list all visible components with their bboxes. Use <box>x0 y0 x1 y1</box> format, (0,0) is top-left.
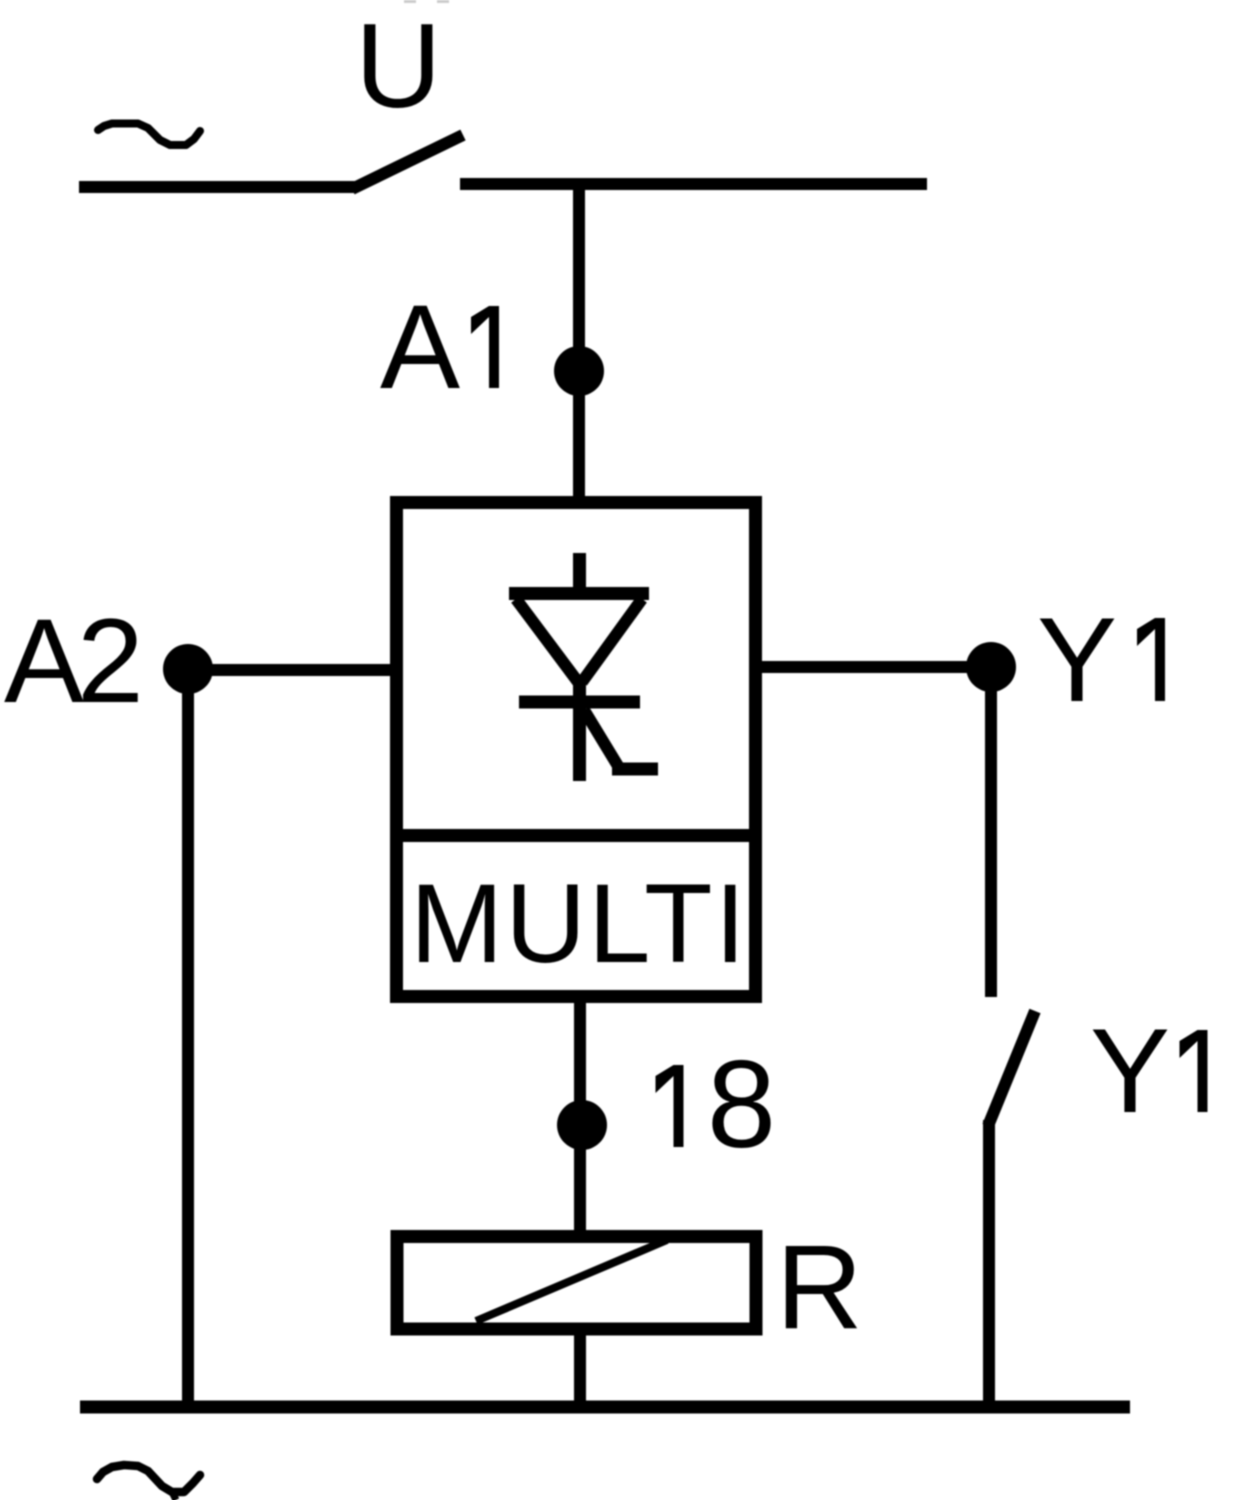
triangle left side <box>516 599 578 682</box>
wire: A2 pin to box <box>188 664 396 676</box>
wire: A2 vertical down to bottom rail <box>182 669 194 1401</box>
svg-text:A: A <box>380 280 460 414</box>
node 18 junction dot <box>557 1100 607 1150</box>
svg-text:8: 8 <box>707 1036 776 1174</box>
wire: bottom rail <box>80 1401 1130 1414</box>
node A1 junction dot <box>554 346 604 396</box>
wire: Y1 stub down to contact <box>985 667 997 997</box>
AC tilde top <box>98 124 200 146</box>
relay coil R box <box>397 1237 756 1330</box>
wire: vertical into A1 <box>573 184 585 502</box>
cropped stroke remnants at top edge <box>404 0 449 3</box>
switch U blade (open contact) <box>352 135 463 189</box>
triangle top bar <box>509 587 649 600</box>
svg-text:U: U <box>355 0 442 133</box>
svg-text:Y: Y <box>1090 1004 1170 1138</box>
thyristor symbol inside box <box>509 553 658 781</box>
cathode lead <box>573 676 586 781</box>
wire: top-left supply line <box>79 181 356 193</box>
wire: box to Y1 pin <box>756 661 991 673</box>
wire: top-right line to A1 <box>460 178 927 190</box>
relay coil diagonal <box>476 1240 667 1321</box>
wire: Y1 lower vertical to bottom rail <box>983 1120 995 1401</box>
svg-text:A2: A2 <box>4 594 138 728</box>
box divider line <box>390 829 762 842</box>
wire: box output 18 vertical <box>574 997 586 1236</box>
label 18 <box>656 1065 684 1147</box>
tilde spur cropped at bottom edge <box>172 1492 176 1500</box>
relay device box U1 <box>397 503 756 997</box>
anode stub <box>573 553 586 592</box>
node Y1 junction dot <box>966 642 1016 692</box>
svg-text:MULTI: MULTI <box>410 861 748 986</box>
svg-text:Y: Y <box>1037 593 1117 727</box>
gate foot <box>612 763 658 776</box>
svg-text:R: R <box>776 1220 863 1354</box>
node A2 junction dot <box>163 644 213 694</box>
switch Y1 blade (open contact) <box>988 1011 1035 1126</box>
AC tilde bottom <box>97 1465 200 1492</box>
wire: below coil to bottom rail <box>574 1335 586 1401</box>
cathode bar <box>519 696 640 709</box>
gate diagonal <box>584 710 618 766</box>
triangle right side <box>582 599 642 682</box>
